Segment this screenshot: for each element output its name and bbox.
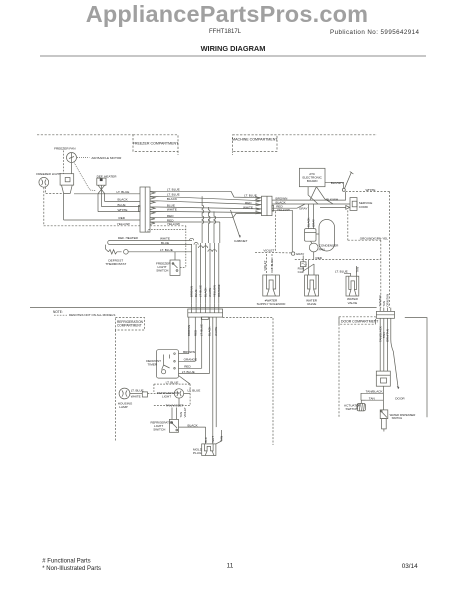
svg-text:BLUE: BLUE [194, 289, 198, 297]
bundle jump bumps [190, 238, 217, 252]
svg-text:PLUG: PLUG [193, 451, 202, 455]
dashed drop label to fan body [62, 151, 64, 174]
heater lead drops [104, 194, 106, 202]
svg-text:* Non-Illustrated Parts: * Non-Illustrated Parts [42, 566, 101, 572]
refrigeration left border [114, 330, 116, 441]
bundle wire 5 [209, 243, 211, 304]
svg-text:VIOLET: VIOLET [263, 249, 274, 253]
wire harness fanout 8 dashed [150, 225, 186, 227]
main wire to service cord [272, 203, 350, 205]
run capacitor [300, 262, 306, 267]
svg-text:RED: RED [193, 330, 197, 336]
svg-text:TAN: TAN [220, 436, 224, 442]
svg-text:WHITE: WHITE [167, 208, 177, 212]
svg-text:WHITE: WHITE [214, 327, 218, 336]
svg-text:BLACK: BLACK [306, 217, 310, 227]
svg-text:BLACK: BLACK [208, 326, 212, 336]
defrost timer box [157, 350, 179, 378]
svg-text:DENOTES NOT ON ALL MODELS: DENOTES NOT ON ALL MODELS [69, 313, 115, 317]
water valve 2 body [305, 275, 319, 296]
svg-text:BROWN: BROWN [190, 286, 194, 297]
svg-text:LT. BLUE: LT. BLUE [131, 389, 144, 393]
refrigerator light switch box [169, 419, 178, 432]
svg-text:YELLOW: YELLOW [212, 285, 216, 297]
water valve 1 body [263, 275, 280, 296]
svg-text:BLUE: BLUE [118, 203, 126, 207]
switch dashed link [180, 267, 186, 269]
machine connector block [262, 196, 273, 215]
fan lead drop to red wire [63, 193, 65, 220]
svg-text:CABINET: CABINET [234, 239, 248, 243]
wire down to plug [205, 427, 207, 444]
module lead down [382, 386, 384, 410]
svg-text:ORN/TAN: ORN/TAN [385, 294, 389, 307]
svg-text:MACHINE COMPARTMENT: MACHINE COMPARTMENT [232, 138, 278, 142]
freezer fan motor circle [67, 153, 77, 163]
svg-text:BROWN: BROWN [187, 325, 191, 336]
svg-text:WIRING DIAGRAM: WIRING DIAGRAM [201, 44, 266, 53]
water dispenser switch [380, 410, 388, 419]
ATC leg 3 diagonal [316, 187, 333, 204]
defrost thermostat zigzag [108, 250, 121, 254]
violet dashed wire [255, 251, 291, 254]
dashed stub under connector [148, 230, 186, 233]
svg-text:SWITCH: SWITCH [153, 427, 165, 431]
svg-text:TAN/VIOLET: TAN/VIOLET [166, 404, 184, 408]
svg-text:CORD: CORD [359, 205, 369, 209]
freezer connector block [140, 187, 150, 232]
door plug body [202, 444, 216, 456]
cabinet divider line [30, 307, 377, 309]
wire black [105, 200, 141, 202]
compressor can outline [319, 220, 335, 252]
evaporator fan body [60, 174, 74, 185]
dashed drop right [389, 192, 391, 309]
svg-text:SWITCH: SWITCH [156, 268, 168, 272]
machine connector crimp arrows [256, 197, 261, 214]
defrost heater body [97, 178, 106, 185]
compressor relay box [305, 229, 317, 242]
freezer light switch box [170, 260, 180, 275]
dashed riser to switch [185, 226, 187, 268]
heater crossed leads [98, 185, 105, 193]
compressor to red dash [313, 252, 315, 260]
relay risers [308, 204, 310, 229]
svg-text:COMPARTMENT: COMPARTMENT [117, 324, 142, 328]
bundle wire 2 [195, 244, 197, 304]
dispenser module box [376, 371, 390, 386]
svg-text:RED: RED [316, 256, 323, 260]
svg-text:ORANGE: ORANGE [217, 284, 221, 297]
tan lead valve 3 [356, 266, 358, 276]
svg-text:LT. BLUE: LT. BLUE [182, 370, 195, 374]
lt blue elbow to valve 3 [344, 273, 351, 276]
light switch leads [171, 408, 173, 420]
svg-text:VALVE: VALVE [307, 302, 317, 306]
svg-text:DEF. HEATER: DEF. HEATER [97, 175, 118, 179]
refrigeration label box [115, 318, 144, 331]
svg-text:LT. BLUE: LT. BLUE [335, 270, 348, 274]
freezer label box stub [177, 151, 179, 155]
wire blue [101, 206, 140, 208]
svg-text:SWITCH: SWITCH [392, 416, 403, 420]
tan/black wire [361, 393, 383, 400]
machine compartment label box [233, 135, 278, 152]
svg-text:BLACK: BLACK [118, 198, 129, 202]
svg-text:AIR BAFFLE MOTOR: AIR BAFFLE MOTOR [91, 156, 122, 160]
refr bundle wire 6 (to light switch wire) [215, 317, 217, 427]
svg-text:GROUND/GRN-YEL: GROUND/GRN-YEL [360, 236, 389, 240]
wire harness fanout 4 [150, 207, 262, 209]
svg-text:# Functional Parts: # Functional Parts [42, 559, 90, 565]
dashed wire red [295, 259, 381, 261]
svg-text:BLACK: BLACK [204, 287, 208, 297]
svg-text:RED: RED [245, 201, 252, 205]
water valve 1 leads [266, 254, 268, 275]
wire connector to hot riser [272, 192, 346, 200]
lamp link wire [130, 393, 142, 395]
wire fan circle to fan body [71, 163, 73, 174]
svg-text:BLUE: BLUE [167, 203, 175, 207]
water valve 3 body [346, 276, 359, 296]
bundle wire 7 [218, 243, 220, 304]
svg-text:WHITE: WHITE [131, 395, 141, 399]
svg-text:LT. BLUE: LT. BLUE [166, 381, 179, 385]
wire lt.blue [74, 193, 140, 195]
machine compartment top dashed border [233, 134, 378, 136]
svg-text:AppliancePartsPros.com: AppliancePartsPros.com [86, 1, 369, 27]
door compartment left border [338, 317, 340, 418]
svg-text:03/14: 03/14 [402, 563, 418, 570]
defrost thermostat bulb [124, 250, 129, 255]
svg-text:FAN: FAN [319, 247, 325, 251]
svg-text:SWITCH: SWITCH [346, 407, 358, 411]
door wire 2 [383, 318, 385, 371]
timer wire 1 [179, 353, 189, 355]
svg-text:LT. BLUE: LT. BLUE [199, 285, 203, 297]
svg-text:LT. BLUE: LT. BLUE [270, 259, 274, 271]
svg-text:YELLOW: YELLOW [167, 222, 180, 226]
timer to light diagonal [179, 376, 191, 385]
lt blue loop line [128, 251, 192, 253]
dispenser plunger [382, 419, 387, 429]
light right wire [184, 392, 190, 394]
machine label box stub [232, 151, 234, 155]
bundle wire 4 [205, 243, 207, 304]
svg-text:BLK: BLK [204, 437, 208, 443]
drop wire D [219, 222, 221, 243]
lamp socket block [142, 392, 147, 397]
switch lead up [174, 252, 176, 260]
svg-text:LT. BLUE: LT. BLUE [167, 193, 180, 197]
timer wire 2 [179, 360, 196, 362]
svg-text:LIGHT: LIGHT [162, 395, 171, 399]
wire harness fanout 2 [150, 196, 262, 200]
ground dashed drop [380, 240, 382, 308]
refr bundle wire 3 [201, 317, 203, 368]
freezer light dashed drop to yellow wire [44, 187, 140, 226]
tan/violet dashed [154, 405, 190, 407]
drop wire A [202, 196, 204, 243]
service cord blade diagonal [345, 172, 352, 188]
refr bundle wire 4 [209, 317, 211, 373]
ATC electronic board box [299, 168, 325, 186]
svg-text:LT. BLUE: LT. BLUE [117, 190, 130, 194]
ATC leg 2 [310, 187, 316, 200]
svg-text:BLK/WH: BLK/WH [326, 197, 338, 201]
svg-text:BLACK: BLACK [188, 423, 199, 427]
switch output wire [179, 426, 206, 428]
svg-text:GRAY: GRAY [296, 252, 305, 256]
dashed riser from harness [275, 211, 277, 252]
bundle wire 1 [191, 244, 193, 304]
svg-text:YELLOW: YELLOW [117, 222, 130, 226]
svg-text:FFHT1817L: FFHT1817L [209, 29, 242, 35]
title underline [40, 55, 426, 57]
svg-text:BROWN: BROWN [183, 350, 195, 354]
freezer light bulb [39, 177, 49, 187]
door wire 1 [379, 318, 381, 371]
actuator switch [357, 400, 366, 411]
cabinet pointer diagonal [231, 210, 241, 238]
housing lamp circle [119, 388, 130, 399]
svg-text:THERMOSTAT: THERMOSTAT [105, 262, 126, 266]
wire connector short [272, 204, 305, 208]
neutral spade into service cord [320, 206, 346, 208]
svg-text:LT. BLUE: LT. BLUE [244, 194, 257, 198]
svg-text:BOARD: BOARD [307, 179, 319, 183]
svg-text:TAN/BLACK: TAN/BLACK [366, 390, 384, 394]
dash-dot pointer fan to heater area [74, 163, 96, 191]
refr bundle wire 1 [188, 317, 190, 354]
junction terminal circle [291, 252, 294, 255]
wire harness fanout 7 [150, 221, 220, 223]
dashed service cord down [347, 210, 349, 240]
service cord body [350, 198, 357, 211]
defrost heater loop top [108, 240, 192, 244]
white dashed wire [346, 191, 390, 193]
svg-text:FREEZER COMPARTMENT: FREEZER COMPARTMENT [133, 142, 179, 146]
svg-text:VIOLET: VIOLET [263, 260, 267, 271]
svg-text:DOOR: DOOR [395, 397, 405, 401]
svg-text:FREEZER LIGHT: FREEZER LIGHT [36, 172, 61, 176]
svg-text:VALVE: VALVE [348, 301, 358, 305]
refrigerator light circle [174, 389, 183, 398]
svg-text:BLK/WH: BLK/WH [331, 181, 343, 185]
wire white [98, 211, 140, 213]
pointer dotted from fan [77, 157, 90, 159]
door compartment right border [405, 318, 427, 418]
ATC leg 1 [308, 187, 318, 204]
svg-text:FREEZER FAN: FREEZER FAN [54, 147, 75, 151]
refr bundle wire 5 (to door plug) [212, 317, 214, 444]
svg-text:ORANGE: ORANGE [184, 358, 197, 362]
timer wire 4 [179, 373, 210, 375]
svg-text:WHT: WHT [211, 436, 215, 443]
svg-text:TAN: TAN [355, 267, 359, 273]
drop wire B [208, 207, 210, 243]
svg-text:NOTE:: NOTE: [53, 310, 63, 314]
crimp arrows [150, 192, 155, 225]
door wire 4 diagonal to door [391, 318, 399, 389]
door wire 3 [387, 318, 389, 371]
svg-text:BLACK: BLACK [167, 197, 178, 201]
compressor motor circle [309, 243, 318, 252]
svg-text:GRAY: GRAY [312, 219, 316, 227]
wire to junction [272, 210, 292, 252]
wire harness fanout 3 [150, 201, 262, 205]
svg-text:WHITE: WHITE [366, 188, 376, 192]
tan wire [366, 399, 384, 401]
refrigeration right dashed border [223, 318, 273, 446]
svg-text:TIMER: TIMER [148, 362, 158, 366]
timer wire 3 [179, 367, 202, 369]
svg-text:11: 11 [227, 563, 234, 570]
svg-text:WHITE: WHITE [208, 288, 212, 297]
dashed lt blue under timer [154, 383, 190, 385]
wire harness fanout 5 [150, 211, 262, 212]
svg-text:VIOLET: VIOLET [183, 407, 187, 418]
wire harness fanout 1 [150, 191, 262, 197]
svg-text:LT. BLUE: LT. BLUE [167, 188, 180, 192]
svg-text:DEF. HEATER: DEF. HEATER [118, 236, 139, 240]
water valve 2 leads [308, 260, 310, 275]
freezer compartment label box [133, 135, 178, 152]
svg-text:SUPPLY SOLENOID: SUPPLY SOLENOID [257, 302, 287, 306]
freezer light dashed link to fan body [45, 187, 62, 194]
tan wire from right [216, 430, 222, 444]
svg-text:LT. BLUE: LT. BLUE [160, 248, 173, 252]
svg-text:BLUE: BLUE [161, 241, 169, 245]
wire harness fanout 6 [150, 214, 262, 218]
svg-text:RED: RED [184, 365, 191, 369]
svg-text:ORN/TAN: ORN/TAN [386, 329, 390, 342]
door compartment label box [339, 317, 375, 324]
light bottom stub [178, 398, 180, 405]
svg-text:LT. BLUE: LT. BLUE [188, 388, 201, 392]
svg-text:DOOR COMPARTMENT: DOOR COMPARTMENT [341, 319, 378, 323]
svg-text:LAMP: LAMP [119, 405, 127, 409]
wire ATC to service cord blade [325, 182, 344, 188]
svg-text:RED: RED [119, 216, 126, 220]
svg-text:GRAY: GRAY [299, 206, 308, 210]
service cord hot terminal [342, 188, 345, 191]
freezer compartment top dashed border [37, 134, 133, 136]
loop left stub [105, 245, 107, 249]
svg-text:LT. BLUE: LT. BLUE [200, 324, 204, 336]
bundle wire 6 [213, 243, 215, 304]
ground green/yellow dashed [348, 239, 381, 241]
door connector block [376, 311, 394, 318]
svg-text:WHITE: WHITE [118, 208, 128, 212]
light link dash [148, 393, 175, 395]
cabinet terminal block [188, 309, 223, 317]
svg-text:Publication No: 5995642914: Publication No: 5995642914 [330, 29, 420, 36]
bundle wire 3 [200, 243, 202, 304]
svg-text:WHITE: WHITE [243, 205, 253, 209]
drop wire C [214, 211, 216, 243]
svg-text:TAN: TAN [369, 397, 375, 401]
fan lower trapezoid [62, 185, 73, 193]
wire red [64, 219, 140, 221]
refr bundle wire 2 [194, 317, 196, 361]
